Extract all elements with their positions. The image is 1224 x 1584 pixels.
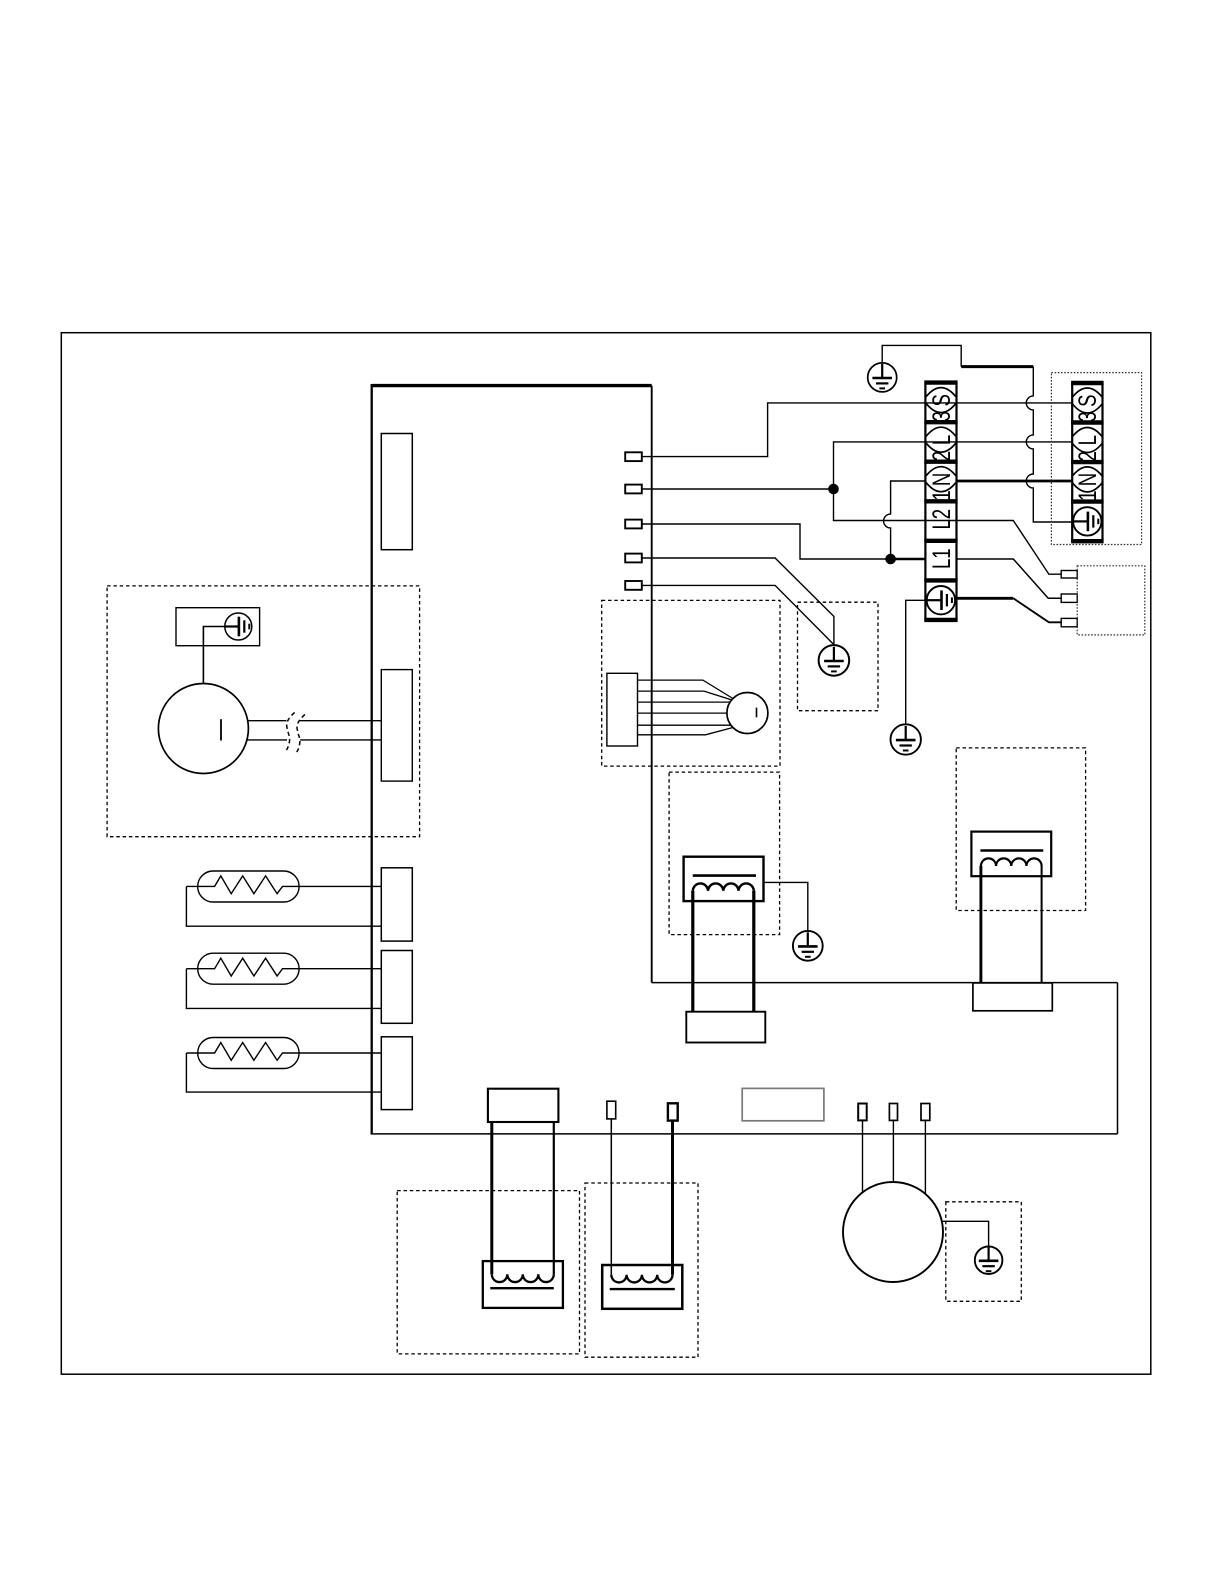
svg-text:L: L (927, 559, 955, 569)
svg-text:S: S (927, 394, 955, 406)
svg-text:2: 2 (927, 509, 955, 519)
svg-text:S: S (1074, 394, 1102, 406)
svg-text:L: L (927, 519, 955, 529)
svg-text:1: 1 (927, 548, 955, 558)
svg-text:N: N (927, 473, 955, 486)
svg-text:L: L (1074, 435, 1102, 445)
svg-text:N: N (1074, 473, 1102, 486)
svg-text:L: L (927, 435, 955, 445)
